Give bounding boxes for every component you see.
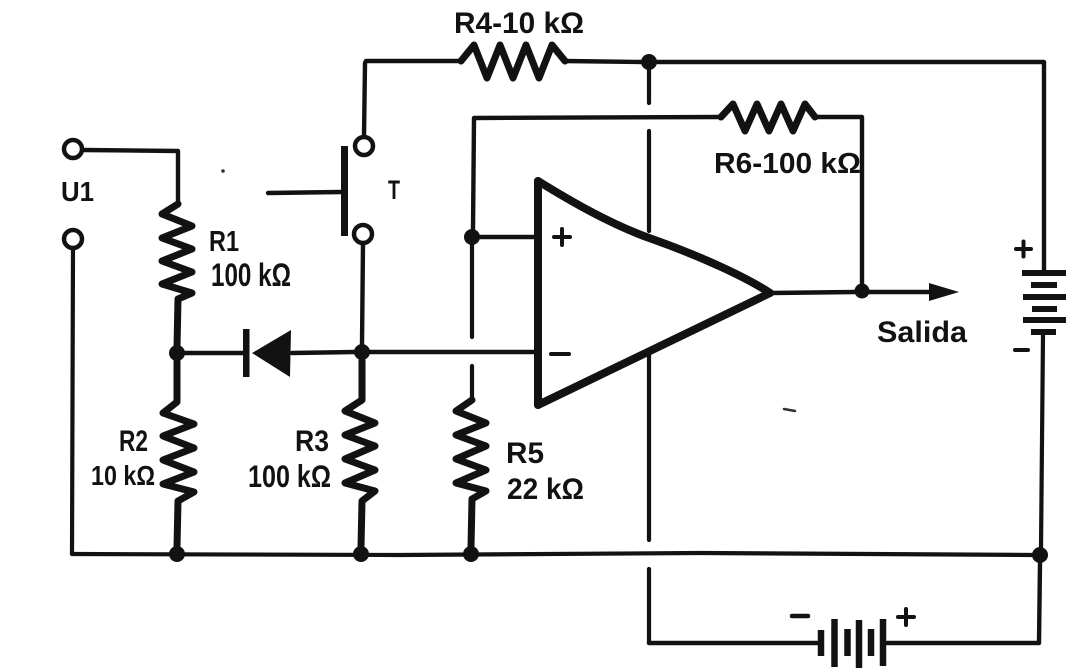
wire diode to R3 node (292, 352, 355, 353)
pushbutton T bottom terminal circle (354, 225, 372, 243)
wire inverting input (node to op-amp -) (370, 350, 537, 354)
pushbutton T actuator bar (341, 146, 348, 236)
pushbutton T top terminal circle (355, 137, 373, 155)
wire negative supply vertical segment 4 (rail crossing to bottom battery) (647, 569, 651, 643)
node rail dot R5 (463, 546, 479, 562)
battery B2 - sign (792, 614, 808, 619)
diode D1 (cathode bar + triangle pointing left) (243, 329, 250, 377)
wire battery B1 bottom to rail (1041, 335, 1043, 548)
node rail dot right corner (1032, 547, 1048, 563)
resistor R6 (721, 104, 815, 131)
wire T top up and over to R4 (364, 61, 461, 137)
node junction dot output (855, 284, 870, 299)
battery B2 (bottom, horizontal) (821, 619, 883, 668)
scan speck dot (221, 169, 225, 173)
node rail dot R3 (353, 546, 369, 562)
wire + node to op-amp (480, 235, 536, 239)
svg-text:R4-10 kΩ: R4-10 kΩ (454, 7, 584, 40)
op-amp - input sign (551, 352, 569, 356)
output arrow Salida (869, 290, 934, 294)
svg-text:100 kΩ: 100 kΩ (248, 458, 331, 494)
svg-text:22 kΩ: 22 kΩ (507, 473, 584, 506)
node junction dot non-inverting input (464, 229, 480, 245)
node junction dot diode/R3/T (354, 344, 370, 360)
input terminal circle bottom (U1) (64, 230, 82, 248)
svg-text:R1: R1 (209, 226, 239, 258)
wire bottom rail (72, 553, 1033, 555)
node rail dot R2 (169, 546, 185, 562)
battery B1 + sign (1016, 242, 1031, 257)
wire diode anode side (184, 351, 245, 355)
svg-text:10 kΩ: 10 kΩ (91, 460, 155, 491)
wire op-amp output (770, 292, 855, 293)
wire negative supply vertical segment 3 (op-amp to rail crossing) (647, 353, 651, 540)
op-amp U1 triangle (538, 181, 770, 405)
battery B2 + sign (898, 609, 914, 625)
op-amp + input sign (554, 229, 570, 245)
wire R5 below crossing (470, 366, 474, 400)
wire top node to right battery + (657, 62, 1044, 271)
wire R6 right down to output node (815, 117, 862, 284)
wire R6 loop: up from + node, across to R6 (473, 117, 721, 230)
battery B1 (right, vertical stack) (1022, 273, 1066, 332)
resistor R3 (345, 360, 375, 547)
node junction dot R1/R2/diode (169, 345, 185, 361)
wire R4 right to top node (565, 61, 642, 62)
input terminal circle top (U1) (64, 140, 82, 158)
svg-text:R5: R5 (506, 437, 544, 470)
svg-text:100 kΩ: 100 kΩ (211, 257, 291, 293)
scan speck dash (784, 409, 795, 411)
wire bottom battery left lead (649, 641, 818, 645)
resistor R2 (163, 361, 194, 547)
svg-text:R2: R2 (119, 425, 148, 458)
wire negative supply vertical segment 2 (between R6 wire and op-amp) (647, 131, 651, 231)
resistor R4 (461, 45, 565, 78)
svg-text:T: T (388, 175, 400, 205)
svg-text:Salida: Salida (877, 316, 967, 349)
wire left vertical from bottom terminal to bottom rail (72, 248, 73, 554)
pushbutton T plunger line (268, 192, 341, 193)
svg-text:R3: R3 (295, 425, 329, 458)
wire R5 top segment (gap at crossing) (470, 245, 474, 337)
resistor R1 (162, 204, 192, 347)
wire from top terminal to R1 top (83, 150, 178, 204)
svg-text:U1: U1 (61, 176, 94, 207)
resistor R5 (456, 400, 486, 547)
wire bottom battery right lead up to rail corner (886, 562, 1040, 643)
wire T bottom to diode node (362, 243, 363, 345)
battery B1 - sign (1015, 348, 1028, 352)
node junction dot R4 / supply top (641, 54, 657, 70)
svg-text:R6-100 kΩ: R6-100 kΩ (714, 148, 861, 180)
wire negative supply vertical segment 1 (below top node) (647, 70, 651, 103)
